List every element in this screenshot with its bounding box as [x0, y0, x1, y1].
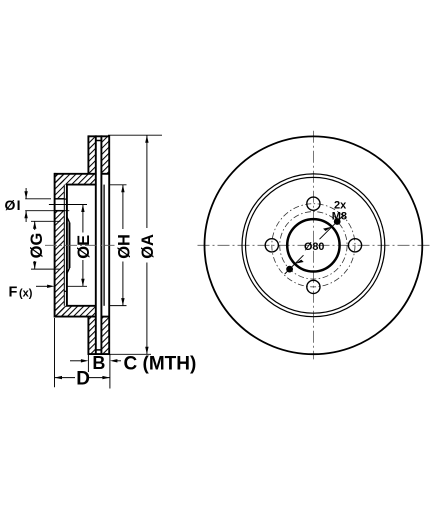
hatch: hat top flange band — [55, 174, 96, 185]
mounting bolt hole lower edge — [55, 210, 65, 212]
dimension ØA extension top — [108, 134, 162, 136]
dimension ØI arrow bottom — [25, 211, 27, 222]
leader from M8 label to hole — [335, 216, 338, 221]
dimension ØH extension bottom — [109, 305, 126, 307]
right plate left face — [100, 135, 102, 355]
register face — [69, 223, 71, 269]
plate hatch boundary bottom — [55, 316, 96, 318]
vent channel tick top — [96, 140, 102, 142]
dimension ØE extension bottom — [67, 285, 87, 287]
bolt hole right — [348, 239, 361, 252]
dimension F(x) leader arrow — [36, 285, 48, 287]
hat bottom flange inner edge — [66, 305, 96, 307]
dimension ØA extension bottom — [109, 353, 151, 355]
Ø80 arrow lower-left — [295, 260, 304, 264]
dimension C arrow — [116, 360, 122, 362]
dimension ØH line and arrows — [122, 185, 124, 229]
plate hatch boundary top — [55, 173, 96, 175]
Ø80 arrow upper-right — [323, 227, 332, 231]
M8 hole circle (dash-dot) — [280, 212, 347, 279]
dimension ØA line and arrows — [146, 135, 148, 228]
dimension ØG extension bottom — [31, 268, 61, 270]
hat top flange inner edge — [66, 184, 96, 186]
hat inner ring circle — [246, 177, 382, 313]
outer circle — [205, 136, 423, 354]
dimension B left arrow — [70, 360, 82, 362]
svg-text:ØI: ØI — [5, 197, 22, 213]
left plate left face top segment — [87, 135, 89, 173]
dimension ØI extension bottom — [25, 210, 69, 212]
register chamfer bottom — [67, 268, 70, 274]
bolt hole top — [307, 197, 320, 210]
vent channel tick bottom — [96, 349, 102, 351]
M8 threaded hole lower-left (filled) — [286, 266, 293, 273]
hatch: left friction plate top — [88, 136, 95, 174]
hatch: mounting wall lower part — [55, 211, 65, 317]
hat cavity left wall — [66, 185, 68, 306]
dimension ØG line and arrows — [34, 221, 36, 230]
dimension ØH extension top — [109, 184, 126, 186]
svg-text:ØG: ØG — [28, 233, 46, 259]
svg-text:ØE: ØE — [75, 235, 93, 259]
mounting wall left face — [54, 173, 56, 318]
hatch: right friction plate top — [101, 136, 109, 174]
Ø80 dimension diagonal line lower segment — [285, 255, 304, 274]
extension line below mounting face — [54, 318, 56, 387]
dimension D line — [55, 377, 76, 379]
svg-text:ØA: ØA — [139, 234, 157, 259]
dimension ØE extension top — [49, 204, 87, 206]
svg-text:F: F — [9, 285, 18, 301]
svg-text:Ø80: Ø80 — [304, 241, 324, 253]
mounting wall hatch boundary — [63, 185, 65, 306]
bolt hole left — [265, 239, 278, 252]
svg-text:C (MTH): C (MTH) — [124, 353, 197, 374]
dimension ØE line and arrows — [82, 205, 84, 233]
dimension ØI arrow top — [25, 188, 27, 199]
left plate left face bottom segment — [87, 317, 89, 355]
extension line below left plate left face — [87, 354, 89, 372]
center bore circle — [287, 219, 339, 271]
centerline of section view — [45, 244, 115, 246]
M8 threaded hole upper-right (filled) — [334, 218, 341, 225]
hatch: right friction plate bottom — [101, 317, 109, 355]
extension line below right plate right face — [109, 354, 111, 388]
hatch: mounting wall upper part — [55, 174, 65, 199]
mounting bolt hole upper edge — [55, 198, 65, 200]
register step tick bottom — [64, 290, 67, 292]
left plate right face — [95, 135, 97, 355]
dimension ØI extension top — [25, 198, 51, 200]
register step tick top — [64, 198, 67, 200]
svg-text:M8: M8 — [332, 210, 347, 222]
svg-text:(x): (x) — [19, 287, 33, 299]
vertical centerline — [312, 131, 314, 360]
hat outer ring circle — [242, 174, 385, 317]
bolt hole bottom — [307, 280, 320, 293]
horizontal centerline — [198, 244, 430, 246]
dimension ØG extension top — [31, 220, 61, 222]
register chamfer top — [67, 217, 70, 223]
Ø80 dimension diagonal line upper segment — [320, 217, 343, 240]
hatch: hat bottom flange band — [55, 306, 96, 317]
right plate right face — [108, 135, 110, 355]
bolt circle (dash-dot) — [272, 204, 355, 287]
disc outer edge top — [88, 135, 109, 137]
svg-text:B: B — [92, 353, 105, 373]
svg-text:D: D — [76, 368, 90, 389]
hatch: left friction plate bottom — [88, 317, 95, 355]
disc outer edge bottom — [88, 353, 109, 355]
svg-text:ØH: ØH — [115, 234, 133, 259]
inner vent wall line — [103, 185, 105, 306]
